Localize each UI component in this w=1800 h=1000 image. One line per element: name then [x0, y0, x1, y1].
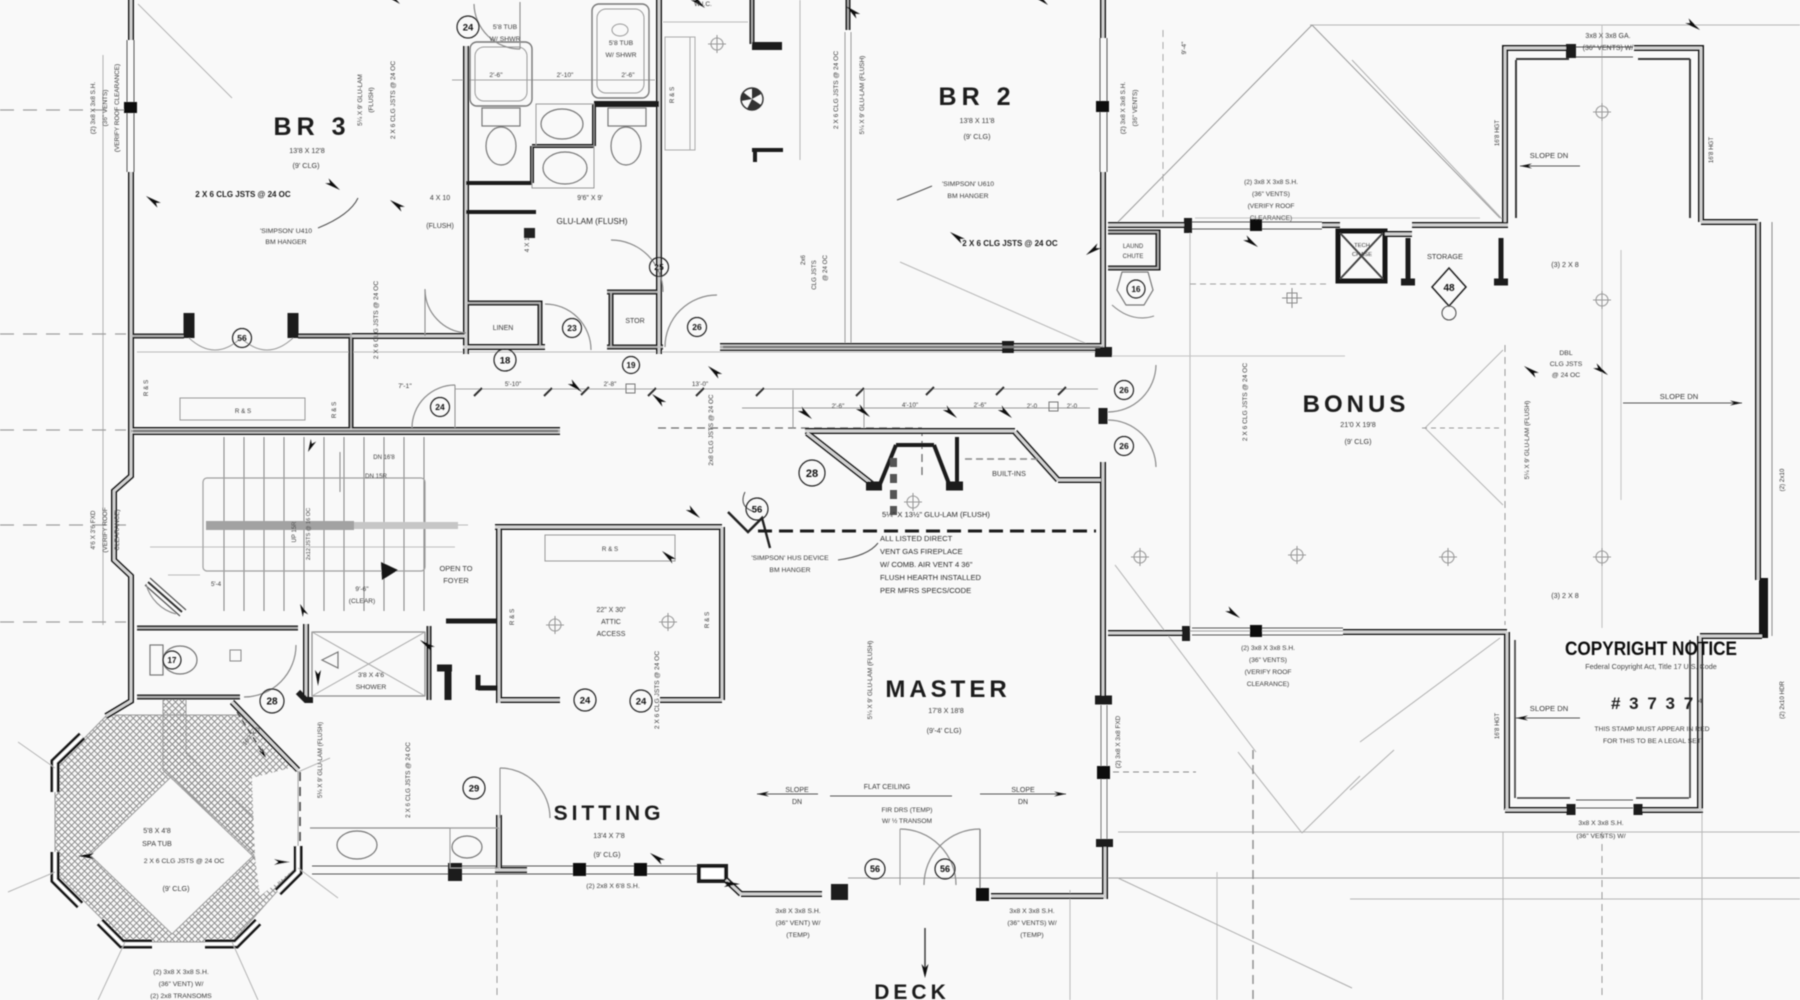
svg-text:(2) 3x8 X 3x8 S.H.: (2) 3x8 X 3x8 S.H.: [1241, 645, 1295, 652]
svg-text:R & S: R & S: [704, 612, 711, 628]
wall: garage bay bottom left: [1505, 807, 1569, 813]
slope arrow master L head: [757, 792, 769, 797]
wall blur: master south step: [726, 880, 741, 894]
svg-text:7'-1": 7'-1": [398, 383, 412, 390]
wall blur: BR3 west upper: [130, 0, 132, 40]
svg-text:CLEARANCE): CLEARANCE): [114, 509, 121, 550]
wall blur: wc east wall: [305, 624, 307, 701]
wall solid: firebox left wing: [878, 445, 896, 489]
svg-text:CHUTE: CHUTE: [1123, 254, 1144, 260]
svg-text:OPEN TO: OPEN TO: [440, 564, 473, 573]
joist arrow hall a: [568, 379, 584, 394]
wall core: deck corner horiz: [1058, 895, 1105, 897]
svg-text:26: 26: [1119, 441, 1129, 451]
arrow spa R: [274, 859, 290, 865]
svg-text:(36" VENTS) W/: (36" VENTS) W/: [1007, 920, 1056, 927]
spa octagon inner edge: [90, 776, 254, 934]
door num 24 bath: [457, 16, 479, 38]
BR2 east window b: [1106, 38, 1108, 172]
wall blur: garage bay right: [1634, 48, 1701, 222]
roof overhang dash left y430: [0, 429, 126, 431]
wall solid: storage jamb left cap: [1401, 279, 1415, 286]
dim tick fp 3: [943, 405, 959, 420]
svg-text:2 X 6 CLG JSTS @ 24 OC: 2 X 6 CLG JSTS @ 24 OC: [833, 51, 840, 129]
light fixture 9: [1593, 103, 1611, 121]
stair mid line y547: [150, 546, 455, 548]
deck edge horizontal y878: [848, 877, 1800, 879]
wall core: garage bay bottom left: [1505, 809, 1569, 811]
stair tread 6: [323, 437, 325, 611]
wall solid: closet L block h: [437, 665, 452, 672]
svg-text:13'-0": 13'-0": [692, 381, 708, 388]
arrow master window: [1225, 606, 1242, 620]
svg-text:16: 16: [1132, 285, 1141, 294]
arrow foyer beam: [315, 670, 321, 686]
svg-text:(2) 3x8 X 3x8 S.H.: (2) 3x8 X 3x8 S.H.: [1120, 82, 1127, 134]
svg-text:5'-10": 5'-10": [505, 381, 521, 388]
svg-text:26: 26: [692, 322, 702, 332]
wall: right wing west wall: [1697, 636, 1703, 810]
roof diag garage west: [1360, 638, 1500, 742]
wall core: wc north wall: [137, 627, 298, 629]
door num 26 bonus 2: [1115, 437, 1134, 456]
tech chase box: [1338, 231, 1385, 281]
wall solid: storage jamb left: [1406, 238, 1411, 282]
svg-text:24: 24: [435, 402, 445, 412]
svg-text:LAUND: LAUND: [1123, 244, 1144, 250]
wall blur: bath west wall: [465, 46, 467, 354]
slope arrow bonus: [1623, 402, 1742, 404]
wall solid: hall wall window tick: [1002, 341, 1014, 353]
svg-text:(9' CLG): (9' CLG): [293, 161, 320, 170]
svg-text:26: 26: [1119, 385, 1129, 395]
svg-text:MASTER: MASTER: [885, 676, 1010, 703]
wic wall thin x845: [844, 32, 846, 347]
svg-text:FIR DRS (TEMP): FIR DRS (TEMP): [882, 807, 933, 814]
svg-text:(36" VENTS) W/: (36" VENTS) W/: [1576, 833, 1625, 840]
master bath sink 2: [337, 831, 377, 859]
svg-text:Federal Copyright Act, Title 1: Federal Copyright Act, Title 17 U.S. Cod…: [1585, 662, 1716, 671]
wall core: master south step: [726, 880, 741, 894]
joist arrow closet top: [686, 505, 702, 520]
svg-text:2'-0: 2'-0: [1027, 403, 1038, 410]
roof edge vertical x1503 low: [1502, 832, 1504, 1000]
outlet square bonus: [1282, 288, 1302, 308]
stair tread 1: [223, 437, 225, 611]
beam dash x300 spa: [299, 772, 301, 862]
num 56 fp leader: [746, 498, 768, 520]
wall blur: BR2 east wall upper: [1102, 0, 1104, 38]
wall: BR2 east wall mid: [1100, 172, 1106, 352]
dim tick hall 3: [696, 388, 704, 396]
svg-text:BUILT-INS: BUILT-INS: [992, 469, 1026, 478]
sitting window a: [312, 865, 697, 867]
wall blur: BR2 east wall mid: [1102, 172, 1104, 352]
arrow dbl clg L: [1522, 364, 1539, 378]
svg-text:5¼ X 9' GLU-LAM (FLUSH): 5¼ X 9' GLU-LAM (FLUSH): [1524, 401, 1531, 480]
wall: right wing bottom wall: [1700, 633, 1762, 639]
wall blur: master door stub: [1108, 632, 1186, 634]
wall core: shower east wall: [428, 626, 430, 700]
roof valley diag BR2 hall: [900, 262, 1087, 344]
wall: master south step: [726, 880, 741, 894]
svg-text:DN: DN: [1018, 799, 1028, 806]
svg-text:(36" VENTS): (36" VENTS): [1249, 657, 1287, 664]
wall core: fireplace bay diag left: [807, 433, 876, 487]
slope arrow master R: [980, 793, 1066, 795]
wall core: sitting sill wall: [495, 869, 527, 871]
light fixture 5: [1288, 546, 1306, 564]
door arc linen: [545, 304, 591, 350]
door arc hall west: [412, 385, 455, 428]
wall core: stair-hall south wall: [131, 429, 560, 433]
octagon wall stub E: [278, 846, 298, 892]
wall: stor bottom lip: [607, 345, 663, 350]
laundry door arc: [1112, 305, 1154, 318]
joist arrow BR3 L: [144, 194, 161, 208]
closet slider arc a: [189, 338, 241, 350]
dim tick hall 7: [996, 387, 1004, 395]
deck pointer head: [922, 964, 929, 978]
svg-text:9'-6": 9'-6": [355, 586, 369, 593]
wall blur: bonus north wall west: [1108, 224, 1188, 226]
svg-text:BM HANGER: BM HANGER: [769, 567, 810, 574]
svg-text:THIS STAMP MUST APPEAR IN RED: THIS STAMP MUST APPEAR IN RED: [1594, 726, 1709, 733]
svg-text:22" X 30": 22" X 30": [596, 607, 626, 614]
tub 1 outline: [470, 42, 532, 106]
svg-text:PER MFRS SPECS/CODE: PER MFRS SPECS/CODE: [880, 586, 971, 595]
arrow sitting: [648, 851, 665, 865]
svg-text:25: 25: [654, 262, 664, 272]
wall blur: sitting sill wall: [495, 869, 527, 871]
wall blur: master bath diagonal wall: [232, 702, 298, 770]
bonus south window a: [1192, 627, 1343, 629]
svg-text:16'8 HGT: 16'8 HGT: [1494, 713, 1501, 740]
chimney dash 3: [890, 506, 897, 515]
door arc hall-BR2: [665, 295, 717, 347]
wall solid: firebox cap right: [946, 482, 963, 491]
dim tick hall 2: [648, 388, 656, 396]
octagon ray SE: [232, 942, 258, 1000]
shower X a: [312, 632, 425, 696]
beam blob bath: [524, 228, 535, 238]
wall solid: WIC wall cap: [752, 42, 782, 50]
wall core: right wing top wall: [1701, 221, 1758, 223]
wall solid: bath partition E: [594, 101, 659, 107]
wall solid: master east cap: [1095, 696, 1112, 705]
roof line top right horizontal: [1310, 24, 1800, 26]
svg-text:ALL LISTED DIRECT: ALL LISTED DIRECT: [880, 534, 953, 543]
wall: BR2 east wall upper: [1100, 0, 1106, 38]
octagon wall stub NW: [55, 736, 82, 792]
door arc bath top: [474, 4, 520, 49]
wall core: fireplace bay diag right: [1015, 432, 1058, 480]
svg-text:5'8 TUB: 5'8 TUB: [493, 24, 518, 31]
svg-text:9'-4": 9'-4": [1181, 42, 1188, 55]
bonus interior vertical x1190: [1189, 232, 1191, 628]
svg-text:W/ SHWR: W/ SHWR: [490, 36, 521, 43]
wall blur: stor bottom lip: [607, 346, 663, 348]
open-below dash y428: [658, 427, 922, 429]
door arc BR3: [425, 290, 466, 333]
svg-text:56: 56: [870, 864, 880, 874]
num 17 wc: [163, 651, 181, 669]
wall: BR3 closet wall right: [298, 334, 352, 339]
wall core: bonus south wall: [1343, 631, 1507, 633]
wall core: sitting west wall: [498, 815, 500, 870]
roof ridge vertical x1602 upper: [1601, 25, 1603, 628]
wall core: BR3 west upper: [130, 0, 132, 40]
svg-text:DN 15R: DN 15R: [365, 473, 388, 480]
svg-text:2 X 6 CLG JSTS @ 24 OC: 2 X 6 CLG JSTS @ 24 OC: [390, 61, 397, 139]
simpson hus zigzag: [728, 512, 770, 548]
wall solid: closet L block v: [445, 668, 452, 700]
wall: deck door east wall: [991, 893, 1058, 899]
dim tick hall 9: [581, 387, 589, 395]
master thin y630 window band: [1188, 630, 1343, 632]
door leaf hall west: [454, 385, 456, 428]
wall blur: stor closet box: [607, 292, 659, 347]
BR3 closet shelf: [180, 398, 305, 420]
wall core: hall north wall west seg: [352, 335, 466, 337]
wall core: garage bay right: [1634, 48, 1701, 222]
roof line left margin vertical: [102, 55, 104, 625]
wall: master bath diagonal wall: [232, 702, 298, 770]
BR3 west window line b: [133, 40, 135, 172]
wall: WIC wall upper: [750, 0, 755, 44]
wall: BR3 closet side: [349, 334, 354, 429]
wall blur: right wing top wall: [1701, 221, 1758, 223]
svg-text:'SIMPSON' U610: 'SIMPSON' U610: [942, 181, 994, 188]
bonus dashed x1505: [1504, 345, 1506, 625]
svg-text:(VERIFY ROOF: (VERIFY ROOF: [1248, 203, 1295, 210]
svg-text:GLU-LAM (FLUSH): GLU-LAM (FLUSH): [557, 217, 628, 226]
greatroom opening edge x864: [863, 390, 865, 428]
stair tread 10: [403, 437, 405, 611]
wall: BR3 west main: [106, 172, 131, 716]
stair tread 3: [263, 437, 265, 611]
wall core: master closet bottom L: [499, 699, 560, 701]
bonus ceiling break diag up: [1425, 350, 1503, 428]
svg-text:R & S: R & S: [669, 87, 676, 103]
wall blur: hall north wall: [720, 346, 1103, 349]
svg-text:4'-10": 4'-10": [902, 402, 918, 409]
wall blur: sitting west wall: [498, 815, 500, 870]
wall blur: bath center wall: [658, 0, 660, 354]
window num 48 diamond: [1432, 268, 1466, 320]
svg-text:'SIMPSON' U410: 'SIMPSON' U410: [260, 228, 312, 235]
roof edge vertical x1702 low: [1701, 812, 1703, 1000]
arrow spa L: [78, 853, 94, 859]
num 56 sitting: [865, 859, 885, 879]
light fixture 4: [1131, 548, 1149, 566]
svg-text:3x8 X 3x8 S.H.: 3x8 X 3x8 S.H.: [1578, 820, 1623, 827]
glulam beam dashed: [758, 530, 1096, 533]
svg-text:CLG JSTS: CLG JSTS: [1550, 361, 1583, 368]
wall: fireplace bay diag left: [807, 433, 876, 487]
wall: garage bay bottom right: [1634, 807, 1703, 813]
BR2 east window a: [1099, 38, 1101, 172]
stair arrow top: [305, 439, 316, 453]
wall solid: garage bay bottom notch R: [1634, 804, 1643, 815]
garage bay inner bottom r: [1636, 797, 1689, 799]
wall core: deck door east wall: [991, 895, 1058, 897]
wall core: garage bay bottom right: [1634, 809, 1703, 811]
svg-text:48: 48: [1443, 283, 1455, 294]
svg-text:SPA TUB: SPA TUB: [142, 839, 172, 848]
svg-text:3x8 X 3x8 S.H.: 3x8 X 3x8 S.H.: [1009, 908, 1054, 915]
garage window bottom b: [1576, 807, 1633, 809]
svg-text:13'4 X 7'8: 13'4 X 7'8: [593, 831, 625, 840]
wall core: fireplace bay right run: [1058, 479, 1101, 481]
svg-text:5¼ X 9' GLU-LAM (FLUSH): 5¼ X 9' GLU-LAM (FLUSH): [859, 56, 866, 135]
svg-text:2 X 6 CLG JSTS @ 24 OC: 2 X 6 CLG JSTS @ 24 OC: [195, 190, 291, 199]
garage inner thin x1772: [1771, 222, 1773, 636]
svg-text:ATTIC: ATTIC: [601, 619, 621, 626]
window sym wc: [230, 650, 241, 661]
WIC fan symbol: [741, 88, 763, 110]
wall blur: deck corner vert: [1104, 845, 1106, 899]
svg-text:2 X 6 CLG JSTS @ 24 OC: 2 X 6 CLG JSTS @ 24 OC: [654, 651, 661, 729]
door num 24 hall: [431, 398, 450, 417]
svg-text:TECH: TECH: [1354, 243, 1370, 249]
svg-text:(36" VENTS): (36" VENTS): [1132, 90, 1139, 127]
bonus window a: [1192, 221, 1322, 223]
window mullion BR2 east: [1096, 101, 1109, 112]
wall blur: BR3 closet wall left: [131, 335, 184, 337]
stair tread 5: [303, 437, 305, 611]
dim tick hall 6: [926, 387, 934, 395]
svg-text:28: 28: [806, 468, 818, 480]
garage bay inner right: [1689, 640, 1691, 798]
wall: laundry chute box: [1108, 232, 1158, 268]
deck post vertical x1070: [1069, 890, 1071, 1000]
slope arrow garage head: [1520, 164, 1532, 169]
window jamb sitting west: [448, 863, 462, 881]
svg-text:@ 24 OC: @ 24 OC: [1552, 372, 1581, 379]
built-ins shelf dash: [965, 458, 1040, 460]
wall: master closet left: [496, 527, 502, 703]
roof hip diagonal bonus left: [1115, 25, 1312, 225]
wc toilet bowl: [163, 646, 197, 674]
bonus interior vertical x1621: [1620, 250, 1622, 500]
stair wall center dark: [133, 430, 558, 433]
shower X b: [312, 632, 425, 696]
wall blur: fireplace bay top: [805, 430, 1015, 432]
roof dashed vertical x1163: [1162, 30, 1164, 220]
bath floor white notch: [252, 766, 298, 896]
joist arrow x390: [388, 198, 405, 212]
wall blur: bonus south wall: [1343, 631, 1507, 633]
wall: master closet bottom R: [660, 697, 722, 703]
master wall thin x1107 low: [1106, 705, 1108, 845]
svg-text:# 3 7 3 7: # 3 7 3 7: [1611, 694, 1695, 713]
wall core: BR3 closet wall right: [298, 335, 352, 337]
wall: shower east wall: [427, 626, 432, 700]
garage bay center vertical: [1601, 832, 1603, 1000]
wall: fireplace bay diag right: [1015, 432, 1058, 480]
wall blur: wc south wall: [137, 696, 240, 698]
wall core: garage west wall: [1506, 632, 1508, 810]
wall solid: firebox cap left: [866, 482, 882, 491]
wall core: BR2 east wall upper: [1102, 0, 1104, 38]
arrow laundry wall: [1084, 243, 1101, 257]
svg-text:R & S: R & S: [509, 609, 516, 625]
joist arrow BR3 R: [325, 178, 342, 192]
wall: sitting sill wall: [495, 867, 527, 873]
door num 28 wc: [260, 689, 284, 713]
door arc bonus hall 1: [1108, 365, 1156, 412]
wall: master closet bottom L: [499, 697, 560, 703]
joist arrow closet: [660, 549, 676, 564]
tub 2 inner: [597, 9, 644, 93]
svg-text:24: 24: [636, 696, 647, 707]
slope arrow bonus head: [1730, 401, 1742, 406]
bonus thin y355: [1110, 355, 1345, 357]
door num 23 linen: [563, 319, 582, 338]
deck door line2: [899, 829, 901, 885]
hall thin line y351: [137, 351, 1098, 353]
svg-text:13'8 X 12'8: 13'8 X 12'8: [289, 146, 325, 155]
svg-text:BR 2: BR 2: [939, 83, 1016, 111]
svg-text:COPYRIGHT NOTICE: COPYRIGHT NOTICE: [1565, 638, 1737, 660]
master bath counter line: [310, 827, 497, 829]
wall blur: linen closet box: [466, 303, 540, 347]
dim tick fp 4: [998, 405, 1014, 420]
joist arrow br2w: [844, 4, 860, 19]
wall core: BR2 west wall stub: [847, 0, 849, 30]
wall: fireplace bay right run: [1058, 477, 1101, 483]
svg-text:(VERIFY ROOF: (VERIFY ROOF: [1245, 669, 1292, 676]
toilet 1 tank: [482, 108, 520, 126]
wall: master south run: [741, 891, 822, 897]
entry door 45 leaf: [148, 582, 182, 612]
svg-text:5¼ X 9' GLU-LAM: 5¼ X 9' GLU-LAM: [357, 74, 364, 126]
num 18 hall: [494, 349, 516, 371]
svg-text:CLEARANCE): CLEARANCE): [1250, 215, 1293, 222]
leader 56 fireplace: [743, 492, 755, 512]
master bath counter: [450, 828, 499, 868]
garage bay inner left: [1514, 640, 1516, 798]
svg-text:(3) 2 X 8: (3) 2 X 8: [1551, 260, 1579, 269]
wall core: laundry chute box: [1108, 232, 1158, 268]
svg-text:56: 56: [940, 864, 950, 874]
svg-text:(9'-4' CLG): (9'-4' CLG): [927, 726, 962, 735]
attic dash y284 bonus: [1190, 283, 1330, 285]
wall: bonus north wall east: [1412, 222, 1508, 228]
dim tick hall 1: [544, 388, 552, 396]
svg-text:(CLEAR): (CLEAR): [349, 598, 375, 605]
svg-text:2 X 6 CLG JSTS @ 24 OC: 2 X 6 CLG JSTS @ 24 OC: [373, 281, 380, 359]
flat clg line: [830, 795, 952, 797]
stair tread 2: [243, 437, 245, 611]
bonus ceiling dash y428: [1422, 427, 1502, 429]
svg-text:(36" VENTS): (36" VENTS): [102, 90, 109, 127]
wall blur: fireplace bay right run: [1058, 479, 1101, 481]
svg-text:BM HANGER: BM HANGER: [265, 239, 306, 246]
beam dash y772 master: [1113, 771, 1196, 773]
garage window top b: [1576, 56, 1633, 58]
dim line greatroom y408: [742, 407, 1090, 409]
door leaf bath top: [519, 2, 521, 49]
wall: deck corner horiz: [1058, 893, 1105, 899]
svg-text:DECK: DECK: [874, 981, 950, 1000]
octagon ray NW: [18, 742, 55, 768]
wall core: fireplace bay top: [805, 430, 1015, 432]
svg-text:2 X 6 CLG JSTS @ 24 OC: 2 X 6 CLG JSTS @ 24 OC: [1242, 363, 1249, 441]
svg-text:5¼ X 9' GLU-LAM (FLUSH): 5¼ X 9' GLU-LAM (FLUSH): [867, 641, 874, 720]
bonus south window b: [1192, 634, 1343, 636]
